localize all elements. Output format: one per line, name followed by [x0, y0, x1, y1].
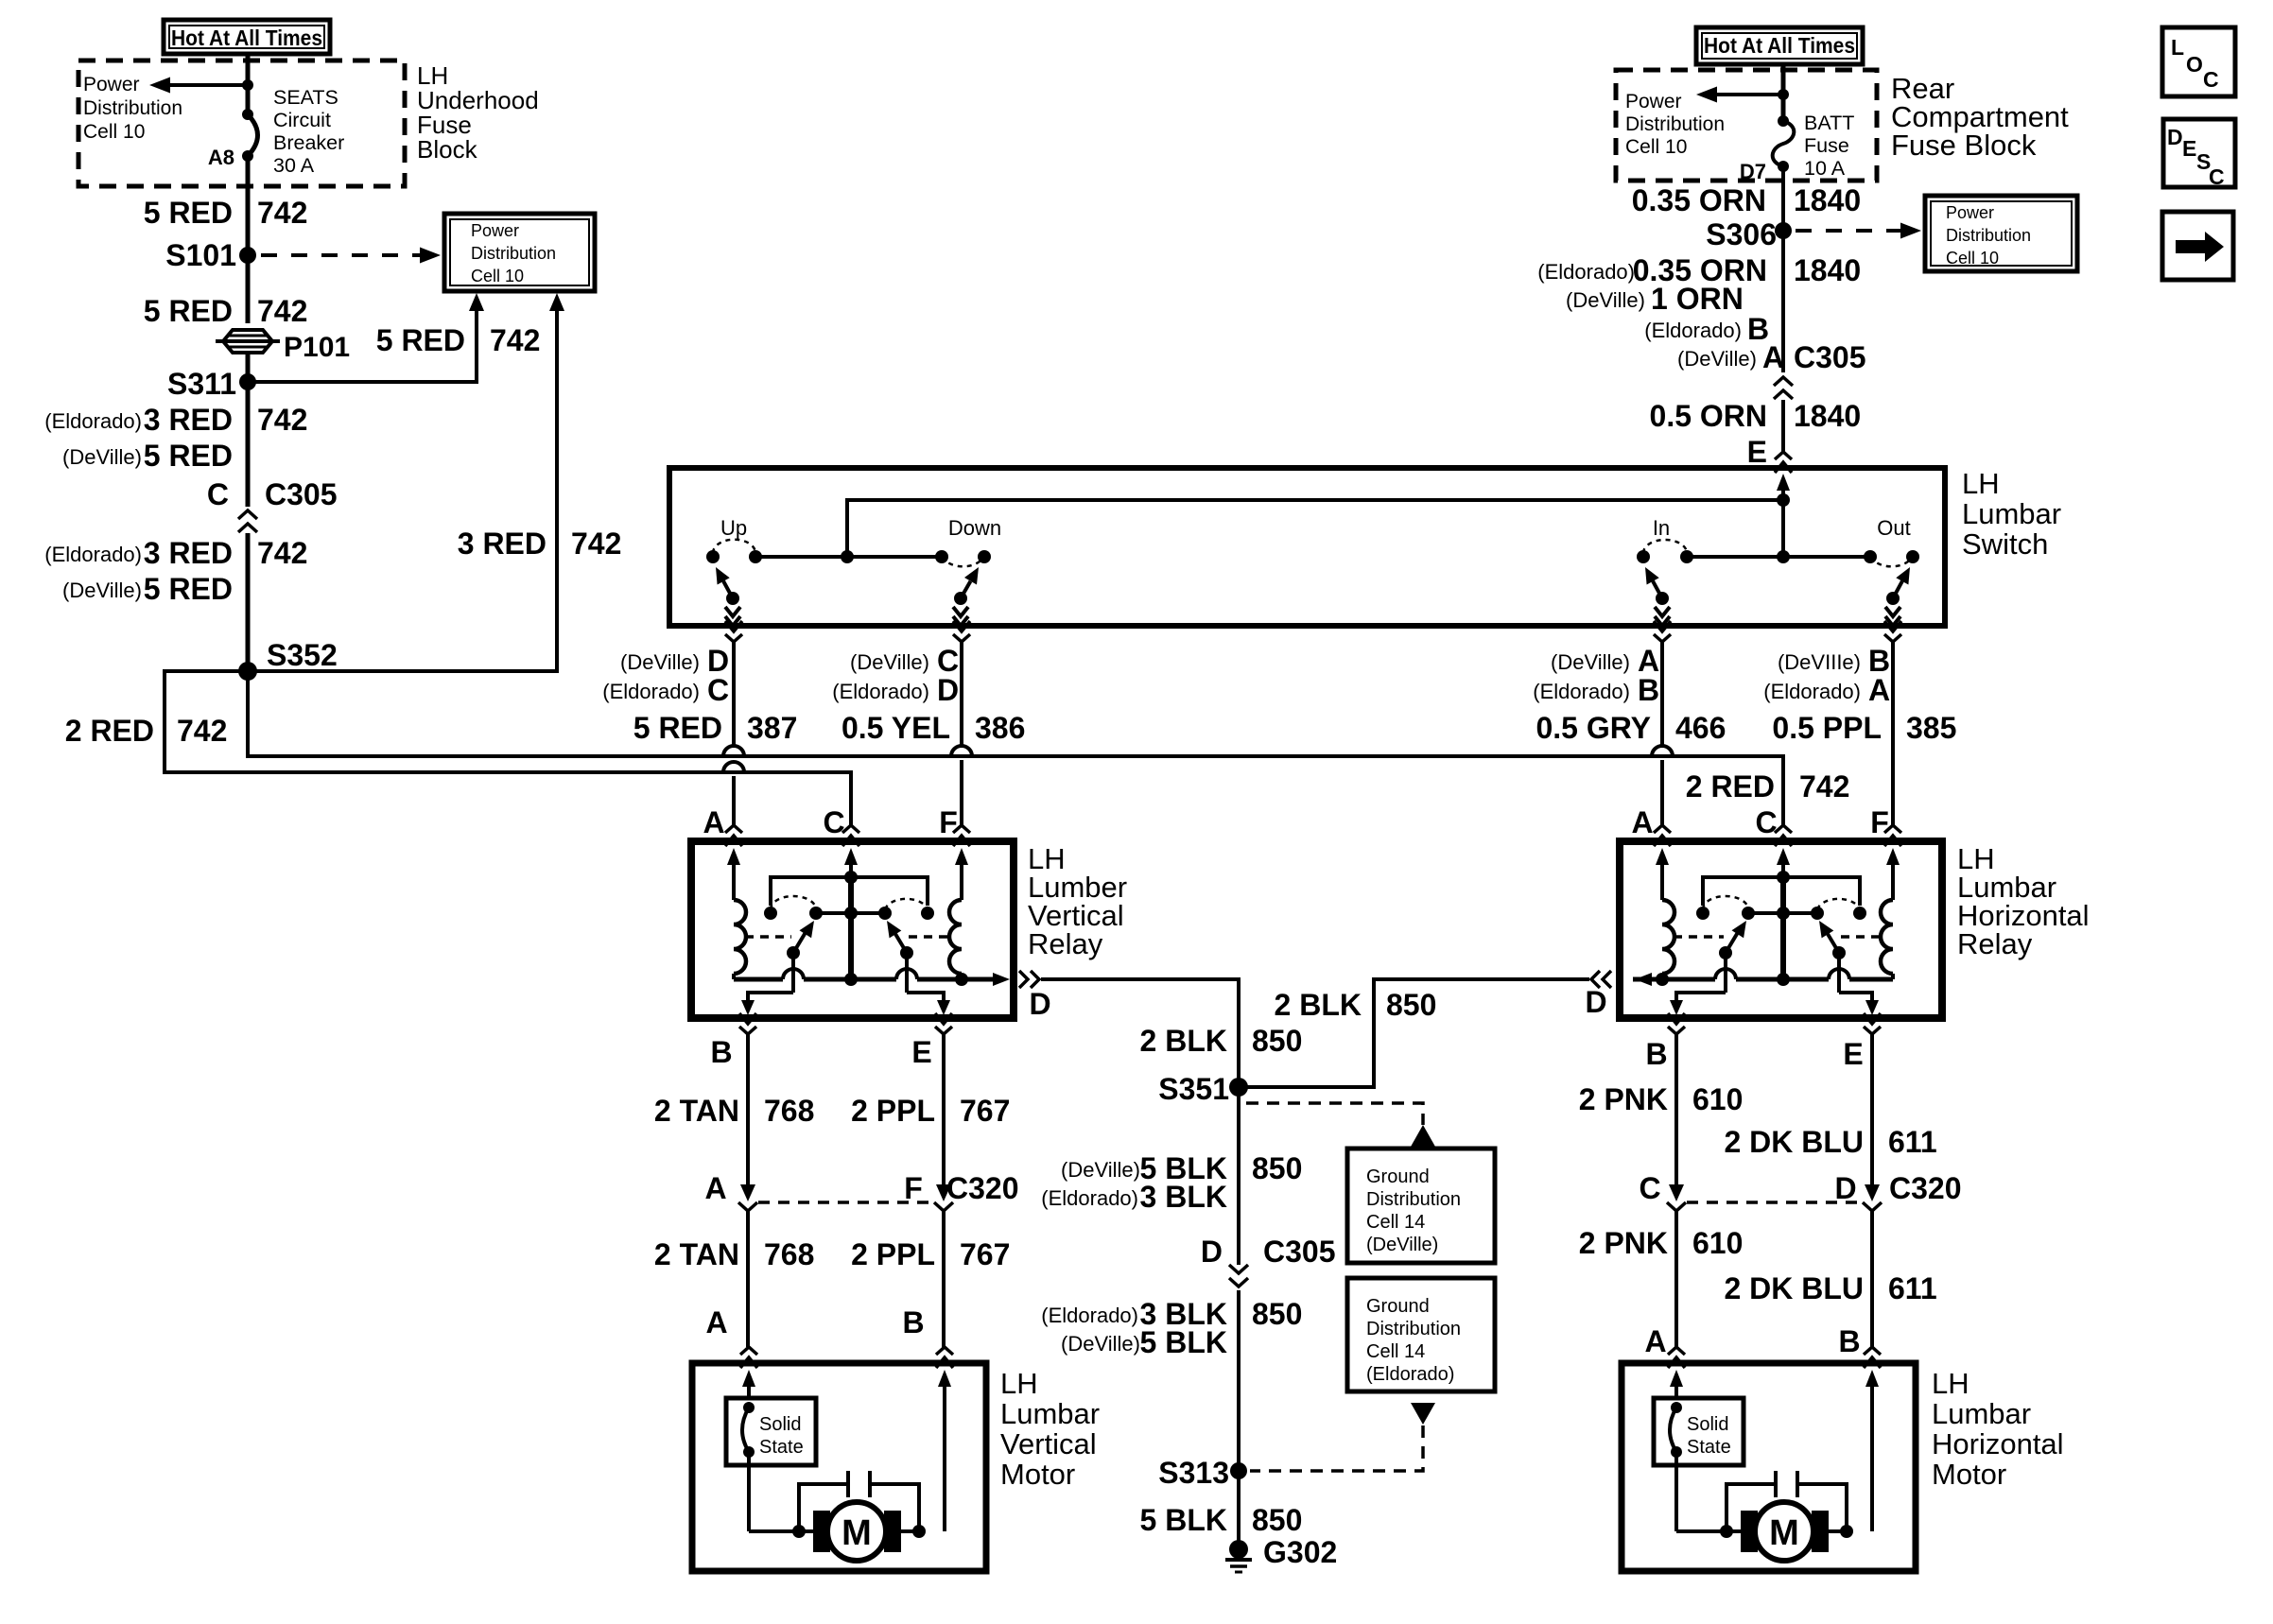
node S311 [167, 367, 256, 401]
connector: LH Lumber Vertical Relay pin E [935, 1013, 952, 1034]
svg-text:611: 611 [1888, 1125, 1937, 1159]
text: BATT Fuse 10 A [1804, 112, 1854, 180]
svg-text:B: B [1838, 1324, 1860, 1358]
wire: 2 PPL 767 (C320 to vertical motor pin B) [851, 1211, 1010, 1347]
svg-text:B: B [902, 1305, 924, 1339]
LH Lumber Vertical Relay internal pin F lead [955, 848, 968, 900]
arrow: switch pin E internal [1777, 474, 1790, 557]
legend box DESC [2163, 119, 2235, 189]
dashed reference: S306 to Power Distribution Cell 10 [1796, 223, 1921, 239]
svg-text:(DeVIIIe): (DeVIIIe) [1778, 650, 1861, 674]
LH Lumbar Horizontal Relay output bus (pin D) [1633, 969, 1893, 986]
LH Lumbar Vertical Motor pin A internal lead [742, 1370, 755, 1398]
svg-text:D: D [2167, 125, 2183, 149]
svg-text:Power: Power [83, 74, 140, 95]
box: Power Distribution Cell 10 (left) [444, 214, 595, 291]
connector: LH Lumber Vertical Relay pin F [953, 825, 970, 846]
legend box: right-arrow [2162, 212, 2233, 280]
LH Lumber Vertical Relay moving contacts [809, 907, 892, 920]
svg-text:D: D [1029, 987, 1050, 1021]
svg-text:State: State [1687, 1437, 1731, 1458]
LH Lumbar Horizontal Relay armature (right) [1819, 921, 1846, 959]
svg-text:0.5 YEL: 0.5 YEL [842, 711, 950, 745]
svg-text:Vertical: Vertical [1000, 1427, 1097, 1460]
svg-text:2 DK BLU: 2 DK BLU [1724, 1271, 1864, 1305]
svg-text:850: 850 [1252, 1151, 1302, 1185]
svg-text:768: 768 [764, 1094, 814, 1128]
inline connector C320 pin F (left) [904, 1171, 1018, 1211]
svg-text:5 RED: 5 RED [376, 323, 465, 357]
svg-text:Cell 10: Cell 10 [1625, 136, 1687, 158]
svg-text:SEATS: SEATS [273, 86, 338, 109]
inline connector C320 pin A (left) [704, 1171, 757, 1211]
svg-text:Breaker: Breaker [273, 131, 344, 154]
svg-text:A: A [1631, 805, 1653, 839]
connector chevrons at horizontal relay pin D [1591, 971, 1611, 988]
wire: 5 RED 742 (A8 to S101) [144, 156, 308, 255]
wire: battery feed inside fuse block [246, 54, 251, 114]
svg-text:Solid: Solid [1687, 1414, 1728, 1435]
svg-text:10 A: 10 A [1804, 157, 1846, 180]
wire: 2 DK BLU 611 (horizontal relay E to C320 pin D) [1724, 1034, 1936, 1185]
svg-text:C: C [2209, 164, 2225, 189]
svg-text:(Eldorado): (Eldorado) [602, 680, 700, 703]
svg-text:(DeVille): (DeVille) [1366, 1235, 1438, 1255]
svg-text:D: D [1834, 1171, 1856, 1205]
svg-text:742: 742 [257, 196, 307, 230]
svg-text:M: M [1769, 1513, 1799, 1553]
wire: 0.5 PPL 385 (Out to horizontal relay pin F) [1763, 642, 1956, 825]
svg-text:Hot At All Times: Hot At All Times [1704, 33, 1855, 58]
LH Lumbar Horizontal Motor pin B internal lead [1865, 1370, 1879, 1531]
svg-text:Switch: Switch [1962, 527, 2048, 561]
svg-text:C305: C305 [1263, 1235, 1336, 1269]
svg-text:Distribution: Distribution [1366, 1319, 1461, 1339]
svg-text:(DeVille): (DeVille) [1677, 347, 1757, 371]
svg-text:Power: Power [1625, 91, 1682, 112]
dashed reference: S101 to Power Distribution Cell 10 [261, 248, 441, 264]
LH Lumber Vertical Relay armature (right) [887, 921, 913, 959]
svg-text:2 TAN: 2 TAN [654, 1237, 739, 1271]
svg-text:C320: C320 [1889, 1171, 1962, 1205]
wire: 0.5 ORN 1840 (C305 to switch pin E) [1650, 399, 1862, 469]
switch Down armature [953, 567, 979, 626]
svg-text:5 RED: 5 RED [144, 196, 233, 230]
svg-text:2 PNK: 2 PNK [1579, 1082, 1668, 1116]
svg-text:S311: S311 [167, 367, 236, 401]
text: Power Distribution Cell 10 (inside rear fuse block) [1625, 91, 1725, 158]
box: Ground Distribution Cell 14 (DeVille) [1347, 1149, 1495, 1263]
LH Lumbar Horizontal Relay pole lead to pin B [1670, 953, 1726, 1015]
svg-text:B: B [1638, 673, 1659, 707]
LH Lumbar Horizontal Relay internal pin A lead [1656, 848, 1669, 900]
svg-text:D7: D7 [1740, 160, 1766, 183]
svg-text:Lumbar: Lumbar [1000, 1397, 1100, 1430]
circuit breaker: SEATS Circuit Breaker 30 A [242, 109, 258, 162]
svg-text:Cell 10: Cell 10 [471, 267, 524, 285]
svg-text:B: B [1645, 1037, 1667, 1071]
svg-text:742: 742 [571, 527, 621, 561]
svg-text:2 RED: 2 RED [65, 714, 154, 748]
legend box LOC [2162, 27, 2235, 96]
svg-text:742: 742 [257, 294, 307, 328]
svg-text:C: C [707, 673, 729, 707]
svg-text:0.5 PPL: 0.5 PPL [1772, 711, 1882, 745]
LH Lumbar Horizontal Motor pin A internal lead [1670, 1370, 1683, 1398]
svg-text:3 RED: 3 RED [144, 403, 233, 437]
box: LH Lumbar Switch [669, 468, 1945, 626]
svg-text:Relay: Relay [1957, 927, 2033, 960]
label box: Hot At All Times (right) [1696, 27, 1863, 64]
node S101 [165, 238, 256, 272]
wire: 0.5 GRY 466 (In to horizontal relay pin A) [1533, 642, 1726, 825]
dashed enclosure: LH Underhood Fuse Block [78, 60, 405, 186]
solid state box in LH Lumbar Vertical Motor [726, 1398, 816, 1465]
box: LH Lumbar Horizontal Relay [1620, 841, 1942, 1018]
svg-text:C: C [823, 805, 844, 839]
wire: ORN 1840 (S306 to C305) [1537, 231, 1861, 374]
svg-text:5 BLK: 5 BLK [1140, 1325, 1227, 1359]
svg-text:L: L [2171, 35, 2184, 60]
node S306 [1706, 217, 1792, 251]
svg-text:2 RED: 2 RED [1686, 769, 1775, 803]
pin labels A C F of LH Lumbar Horizontal Relay [1631, 805, 1888, 839]
pin labels A C F of LH Lumber Vertical Relay [703, 805, 957, 839]
svg-text:Solid: Solid [759, 1414, 801, 1435]
wire: S311 to C305, (Eldorado) 3 RED / (DeVille) 5 RED 742 [44, 382, 307, 507]
svg-text:E: E [1843, 1037, 1863, 1071]
LH Lumbar Horizontal Relay internal pin F lead [1886, 848, 1900, 900]
LH Lumber Vertical Relay common stem [844, 877, 858, 986]
text: SEATS Circuit Breaker 30 A [273, 86, 344, 177]
svg-text:Lumbar: Lumbar [1962, 497, 2061, 530]
wire: 5 RED 742 (S101 to P101) [144, 255, 308, 328]
dashed reference: S351 to Ground Distribution Cell 14 (DeVille) [1246, 1103, 1435, 1147]
fuse: BATT Fuse 10 A [1773, 115, 1795, 172]
svg-text:C305: C305 [1794, 340, 1866, 374]
svg-text:466: 466 [1675, 711, 1726, 745]
svg-text:F: F [1870, 805, 1889, 839]
LH Lumber Vertical Relay pole lead to pin B [741, 953, 793, 1015]
svg-text:5 RED: 5 RED [144, 572, 233, 606]
box: Ground Distribution Cell 14 (Eldorado) [1347, 1278, 1495, 1391]
svg-text:3 BLK: 3 BLK [1140, 1180, 1227, 1214]
LH Lumber Vertical Relay coil (pin A side) [734, 900, 746, 979]
svg-text:Distribution: Distribution [471, 244, 556, 263]
svg-text:C: C [1755, 805, 1777, 839]
svg-text:F: F [904, 1171, 923, 1205]
switch Out contact [1864, 516, 1919, 566]
connector: LH Lumber Vertical Relay pin C [842, 825, 859, 846]
wire: 2 BLK 850 (vertical relay D to S351) [1041, 979, 1302, 1087]
svg-text:2 PPL: 2 PPL [851, 1094, 935, 1128]
LH Lumber Vertical Relay throw arc (left) [771, 896, 816, 909]
svg-text:F: F [939, 805, 958, 839]
svg-text:Out: Out [1877, 516, 1910, 540]
LH Lumber Vertical Relay armature link dashes [745, 935, 952, 939]
svg-text:C305: C305 [265, 477, 338, 511]
svg-text:(Eldorado): (Eldorado) [1763, 680, 1861, 703]
connector: switch output B/A (Out) [1884, 621, 1901, 642]
svg-text:P101: P101 [284, 332, 350, 363]
LH Lumbar Horizontal Relay coil (pin A side) [1662, 900, 1674, 979]
box: LH Lumbar Vertical Motor [692, 1363, 986, 1571]
text: Power Distribution Cell 10 (inside fuse block) [83, 74, 182, 143]
svg-text:C: C [2203, 67, 2219, 92]
wire: 5 BLK 850 (S313 to G302) [1140, 1471, 1303, 1541]
text: LH Lumber Vertical Relay [1028, 842, 1127, 960]
switch contact bar Up/Down [755, 550, 942, 563]
svg-text:1 ORN: 1 ORN [1651, 282, 1744, 316]
connector: LH Lumbar Horizontal Relay pin A [1654, 825, 1671, 846]
wire: 5 RED 742 branch S311 to Power Distribution Cell 10 [248, 293, 540, 382]
svg-text:Cell 14: Cell 14 [1366, 1341, 1425, 1362]
connector: LH Lumbar Horizontal Relay pin C [1775, 825, 1792, 846]
box: Power Distribution Cell 10 (right) [1925, 196, 2077, 271]
svg-text:(DeVille): (DeVille) [1551, 650, 1630, 674]
LH Lumbar Horizontal Relay feed bar [1703, 871, 1860, 906]
wire: P101 to S311 [246, 353, 251, 382]
svg-text:Motor: Motor [1000, 1458, 1075, 1491]
wire: 2 BLK / 5 BLK 850 (S351 to C305 pin D) [1041, 1087, 1302, 1265]
svg-text:742: 742 [1799, 769, 1849, 803]
LH Lumbar Horizontal Motor lead to motor [1676, 1452, 1726, 1531]
LH Lumber Vertical Relay internal pin C lead [844, 848, 858, 877]
connector: LH Lumbar Horizontal Relay pin E [1864, 1013, 1881, 1034]
svg-text:2 TAN: 2 TAN [654, 1094, 739, 1128]
svg-text:C320: C320 [946, 1171, 1019, 1205]
solid state breaker in LH Lumbar Horizontal Motor [1670, 1402, 1682, 1458]
svg-text:Fuse Block: Fuse Block [1891, 129, 2037, 162]
svg-text:Cell 10: Cell 10 [83, 121, 145, 143]
svg-text:Circuit: Circuit [273, 109, 331, 131]
pin D label (horizontal relay) [1585, 985, 1606, 1019]
svg-text:30 A: 30 A [273, 154, 315, 177]
svg-text:Horizontal: Horizontal [1932, 1427, 2064, 1460]
connector: switch pin E entry [1775, 452, 1792, 473]
wire: 2 PNK 610 (horizontal relay B to C320 pin C) [1579, 1034, 1744, 1185]
LH Lumbar Horizontal Relay fixed contacts [1696, 907, 1866, 920]
switch In contact [1637, 516, 1693, 563]
svg-text:1840: 1840 [1794, 253, 1861, 287]
svg-text:2 DK BLU: 2 DK BLU [1724, 1125, 1864, 1159]
switch Up armature [716, 567, 740, 626]
node: internal bus junction at E [1777, 493, 1790, 507]
LH Lumber Vertical Relay feed bar [771, 871, 928, 906]
svg-text:BATT: BATT [1804, 112, 1854, 134]
box: LH Lumber Vertical Relay [691, 841, 1014, 1018]
LH Lumbar Horizontal Relay internal pin C lead [1777, 848, 1790, 877]
svg-text:S306: S306 [1706, 217, 1777, 251]
svg-text:0.35 ORN: 0.35 ORN [1632, 183, 1766, 217]
svg-text:Cell 14: Cell 14 [1366, 1212, 1425, 1233]
svg-text:(Eldorado): (Eldorado) [1041, 1186, 1138, 1210]
svg-text:Down: Down [948, 516, 1001, 540]
svg-text:(DeVille): (DeVille) [62, 579, 142, 602]
svg-text:LH: LH [1932, 1367, 1969, 1400]
svg-text:(DeVille): (DeVille) [850, 650, 929, 674]
text: LH Lumbar Horizontal Relay [1957, 842, 2090, 960]
svg-text:(DeVille): (DeVille) [1061, 1158, 1140, 1182]
svg-text:610: 610 [1692, 1226, 1743, 1260]
dashed connector link C320 (left) [758, 1201, 933, 1204]
arrow: to Power Distribution Cell 10 (left) [149, 78, 248, 94]
svg-text:Distribution: Distribution [1366, 1189, 1461, 1210]
connector: LH Lumbar Horizontal Motor pin A [1668, 1347, 1685, 1368]
svg-text:M: M [842, 1513, 872, 1553]
svg-text:742: 742 [257, 536, 307, 570]
LH Lumber Vertical Relay output bus (pin D) [734, 969, 1010, 986]
connector: LH Lumber Vertical Relay pin A [725, 825, 742, 846]
svg-text:0.5 ORN: 0.5 ORN [1650, 399, 1767, 433]
svg-text:S352: S352 [267, 638, 338, 672]
text: LH Lumbar Switch [1962, 467, 2061, 561]
svg-text:(Eldorado): (Eldorado) [1537, 260, 1635, 284]
svg-text:385: 385 [1906, 711, 1956, 745]
node: rear feed junction [1778, 89, 1789, 100]
dashed connector link C320 (right) [1687, 1201, 1862, 1204]
wire: 0.5 YEL 386 (Down to vertical relay pin F) [832, 642, 1025, 825]
svg-text:E: E [2182, 136, 2196, 161]
connector: switch output C/D (Down) [953, 621, 970, 642]
svg-text:850: 850 [1386, 988, 1436, 1022]
switch In armature [1645, 567, 1670, 626]
svg-text:850: 850 [1252, 1024, 1302, 1058]
LH Lumbar Horizontal Relay throw arc (left) [1703, 896, 1748, 909]
svg-text:387: 387 [747, 711, 797, 745]
svg-text:850: 850 [1252, 1503, 1302, 1537]
svg-text:C: C [1639, 1171, 1660, 1205]
LH Lumber Vertical Relay fixed contacts [764, 907, 934, 920]
svg-text:(DeVille): (DeVille) [1061, 1332, 1140, 1356]
connector: LH Lumbar Horizontal Relay pin F [1884, 825, 1901, 846]
text Solid State [759, 1414, 804, 1458]
LH Lumbar Vertical Motor armature wire [792, 1525, 926, 1538]
switch Out armature [1885, 567, 1910, 626]
switch Up contact [706, 516, 762, 563]
svg-text:G302: G302 [1263, 1535, 1337, 1569]
LH Lumbar Horizontal Relay moving contacts [1742, 907, 1824, 920]
svg-text:D: D [937, 673, 959, 707]
switch contact bar In/Out [1687, 550, 1870, 563]
svg-text:(Eldorado): (Eldorado) [1533, 680, 1630, 703]
connector: switch output A/B (In) [1654, 621, 1671, 642]
wire: C305 to S352, (Eldorado) 3 RED / (DeVille) 5 RED 742 [44, 533, 307, 671]
svg-text:767: 767 [960, 1237, 1010, 1271]
svg-text:(Eldorado): (Eldorado) [832, 680, 929, 703]
svg-text:5 RED: 5 RED [144, 439, 233, 473]
connector: LH Lumbar Horizontal Motor pin B [1864, 1347, 1881, 1368]
wire: 2 RED 742 bus to LH Lumbar Vertical Relay pin C [65, 671, 851, 825]
LH Lumbar Horizontal Motor capacitor branch [1726, 1471, 1847, 1531]
svg-text:LH: LH [1000, 1367, 1038, 1400]
svg-text:In: In [1653, 516, 1670, 540]
wire: 3 BLK / 5 BLK 850 (C305 to S313) [1041, 1290, 1302, 1471]
wire: 2 RED 742 trunk bus to LH Lumbar Horizontal Relay pin C [248, 671, 1849, 825]
LH Lumbar Vertical Motor pin B internal lead [938, 1370, 951, 1531]
connector chevrons at vertical relay pin D [1019, 971, 1039, 988]
inline connector C320 pin D (right) [1834, 1171, 1961, 1211]
wire: 0.35 ORN 1840 (D7 to S306) [1632, 166, 1861, 231]
svg-text:742: 742 [257, 403, 307, 437]
node S351 [1158, 1072, 1248, 1106]
wire: 2 DK BLU 611 (C320 to horizontal motor pin B) [1724, 1211, 1936, 1358]
svg-text:Up: Up [720, 516, 747, 540]
svg-text:2 PPL: 2 PPL [851, 1237, 935, 1271]
inline connector C305 pin D (ground) [1201, 1235, 1336, 1287]
svg-text:A: A [703, 805, 724, 839]
inline connector C320 pin C (right) [1639, 1171, 1686, 1211]
wire: battery feed inside rear fuse block [1781, 64, 1786, 121]
svg-text:Block: Block [417, 135, 478, 164]
svg-text:(Eldorado): (Eldorado) [1644, 319, 1742, 342]
svg-text:850: 850 [1252, 1297, 1302, 1331]
svg-text:A: A [704, 1171, 726, 1205]
wire: 2 BLK 850 (S351 to horizontal relay D) [1239, 979, 1589, 1087]
dashed reference: Ground Distribution Cell 14 (Eldorado) to S313 [1250, 1403, 1435, 1471]
svg-text:1840: 1840 [1794, 183, 1861, 217]
LH Lumber Vertical Relay throw arc (right) [885, 899, 928, 909]
motor M in LH Lumbar Horizontal Motor [1755, 1502, 1813, 1561]
svg-text:LH: LH [1962, 467, 2000, 500]
text Solid State [1687, 1414, 1731, 1458]
svg-text:Ground: Ground [1366, 1296, 1430, 1317]
svg-text:5 RED: 5 RED [633, 711, 722, 745]
svg-text:S101: S101 [165, 238, 236, 272]
solid state breaker in LH Lumbar Vertical Motor [742, 1402, 755, 1458]
connector: LH Lumber Vertical Relay pin B [739, 1013, 756, 1034]
text: LH Lumbar Horizontal Motor [1932, 1367, 2064, 1491]
svg-text:A: A [1868, 673, 1890, 707]
svg-text:Distribution: Distribution [1946, 226, 2031, 245]
svg-text:(DeVille): (DeVille) [62, 445, 142, 469]
wire: switch internal feed bus [847, 500, 1783, 557]
LH Lumbar Vertical Motor lead to motor [749, 1452, 799, 1531]
svg-text:D: D [1585, 985, 1606, 1019]
wire: 2 TAN 768 (C320 to vertical motor pin A) [654, 1211, 814, 1347]
LH Lumbar Horizontal Motor armature wire [1720, 1525, 1853, 1538]
svg-text:E: E [1747, 435, 1767, 469]
node S352 [238, 638, 338, 681]
svg-text:2 BLK: 2 BLK [1140, 1024, 1227, 1058]
node S313 [1158, 1456, 1247, 1490]
dashed enclosure: Rear Compartment Fuse Block [1616, 70, 1877, 181]
svg-text:5 BLK: 5 BLK [1140, 1503, 1227, 1537]
svg-text:767: 767 [960, 1094, 1010, 1128]
LH Lumbar Horizontal Relay armature link dashes [1674, 935, 1883, 939]
LH Lumber Vertical Relay internal pin A lead [727, 848, 740, 900]
svg-text:C: C [207, 477, 229, 511]
svg-text:2 BLK: 2 BLK [1275, 988, 1362, 1022]
wire: 2 TAN 768 (vertical relay B to C320 pin A) [654, 1034, 814, 1185]
svg-text:610: 610 [1692, 1082, 1743, 1116]
LH Lumbar Vertical Motor brushes [813, 1511, 901, 1552]
svg-text:D: D [1201, 1235, 1223, 1269]
svg-text:Relay: Relay [1028, 927, 1103, 960]
LH Lumbar Horizontal Relay armature (left) [1719, 921, 1746, 959]
svg-text:B: B [710, 1035, 732, 1069]
svg-text:611: 611 [1888, 1271, 1937, 1305]
text: LH Underhood Fuse Block [417, 61, 539, 164]
svg-text:Cell 10: Cell 10 [1946, 249, 1999, 268]
pin D label (vertical relay) [1029, 987, 1050, 1021]
LH Lumbar Horizontal Relay throw arc (right) [1817, 899, 1860, 909]
svg-text:(DeVille): (DeVille) [1566, 288, 1645, 312]
svg-text:5 RED: 5 RED [144, 294, 233, 328]
LH Lumbar Vertical Motor capacitor branch [799, 1471, 919, 1531]
svg-text:0.5 GRY: 0.5 GRY [1536, 711, 1651, 745]
svg-text:386: 386 [975, 711, 1025, 745]
